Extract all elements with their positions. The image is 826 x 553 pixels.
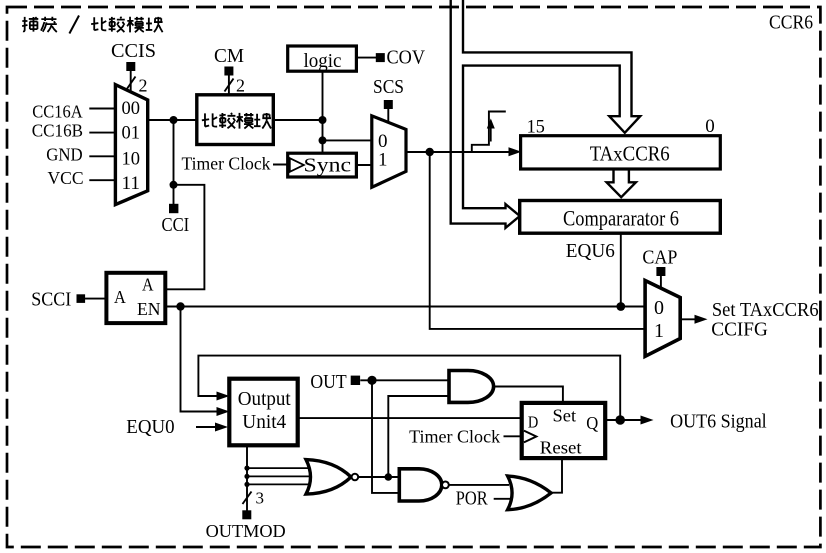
svg-text:CM: CM <box>214 45 244 67</box>
svg-text:1: 1 <box>654 320 664 342</box>
svg-text:logic: logic <box>304 50 342 72</box>
svg-text:Reset: Reset <box>540 437 582 457</box>
svg-text:OUT: OUT <box>310 371 346 393</box>
svg-text:VCC: VCC <box>48 168 84 188</box>
svg-text:00: 00 <box>122 98 141 119</box>
svg-text:CC16B: CC16B <box>32 121 83 141</box>
svg-text:COV: COV <box>387 47 426 69</box>
svg-text:0: 0 <box>654 297 664 319</box>
svg-text:Output: Output <box>238 388 291 410</box>
svg-text:Set: Set <box>553 405 577 425</box>
svg-text:A: A <box>142 275 154 295</box>
svg-text:CCR6: CCR6 <box>769 11 813 33</box>
svg-text:A: A <box>114 287 126 307</box>
svg-text:Compararator 6: Compararator 6 <box>563 205 679 230</box>
svg-text:EQU6: EQU6 <box>566 240 615 262</box>
svg-text:Timer Clock: Timer Clock <box>182 154 271 174</box>
svg-text:2: 2 <box>139 76 148 96</box>
svg-text:GND: GND <box>46 145 82 165</box>
svg-text:SCS: SCS <box>373 76 404 98</box>
svg-text:11: 11 <box>122 173 141 194</box>
svg-text:CAP: CAP <box>642 246 677 268</box>
svg-text:Q: Q <box>586 413 598 433</box>
svg-text:D: D <box>528 413 538 432</box>
svg-text:CCIFG: CCIFG <box>711 319 768 341</box>
svg-text:Timer Clock: Timer Clock <box>409 427 500 447</box>
svg-text:EQU0: EQU0 <box>126 416 174 438</box>
svg-text:15: 15 <box>527 117 545 138</box>
svg-text:CCI: CCI <box>162 214 190 236</box>
svg-text:Unit4: Unit4 <box>242 411 286 433</box>
svg-text:OUTMOD: OUTMOD <box>206 521 286 541</box>
svg-text:0: 0 <box>705 116 715 137</box>
svg-text:TAxCCR6: TAxCCR6 <box>590 141 670 165</box>
svg-text:SCCI: SCCI <box>31 288 71 310</box>
svg-text:10: 10 <box>122 149 141 170</box>
svg-text:2: 2 <box>236 76 245 96</box>
svg-text:CC16A: CC16A <box>32 101 82 121</box>
svg-text:EN: EN <box>137 299 161 319</box>
svg-text:POR: POR <box>456 487 488 509</box>
svg-text:3: 3 <box>256 489 265 508</box>
svg-text:01: 01 <box>122 123 141 144</box>
svg-text:Sync: Sync <box>304 155 352 177</box>
svg-text:CCIS: CCIS <box>111 40 156 62</box>
svg-text:1: 1 <box>378 150 388 171</box>
svg-text:OUT6 Signal: OUT6 Signal <box>670 411 767 433</box>
